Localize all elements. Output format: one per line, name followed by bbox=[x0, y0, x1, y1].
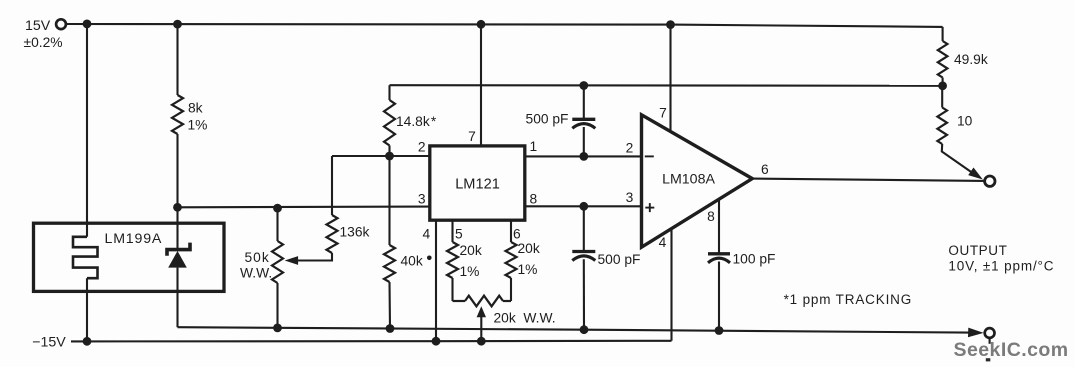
node feedback / 49.9k-10 tap bbox=[938, 81, 947, 90]
svg-text:*1 ppm TRACKING: *1 ppm TRACKING bbox=[784, 292, 913, 307]
terminal output low bbox=[985, 328, 995, 338]
arrow 20k wiper bbox=[477, 306, 486, 317]
node top rail / heater bbox=[83, 20, 92, 29]
svg-text:4: 4 bbox=[659, 235, 667, 250]
wire pin1 to op-amp pin2 bbox=[525, 155, 642, 157]
node -15V rail / heater bbox=[83, 337, 92, 346]
potentiometer 20k W.W. bbox=[453, 300, 466, 302]
node pin1 wire / 500pF-1 bbox=[579, 152, 588, 161]
resistor 136k bbox=[327, 215, 338, 253]
wire common ground rail bbox=[178, 327, 969, 332]
svg-text:3: 3 bbox=[626, 190, 634, 205]
wire 20k wiper bbox=[480, 313, 482, 341]
svg-text:7: 7 bbox=[468, 129, 476, 144]
svg-text:1%: 1% bbox=[518, 262, 538, 277]
wire LM108A pin4 lead bbox=[670, 229, 672, 341]
svg-text:1: 1 bbox=[529, 139, 537, 154]
svg-text:OUTPUT: OUTPUT bbox=[948, 243, 1007, 258]
capacitor 500pF-1 bottom plate bbox=[572, 124, 595, 129]
wire 8k top lead bbox=[176, 24, 178, 95]
node pin2 / 14.8k / 40k bbox=[385, 152, 394, 161]
capacitor 100pF bottom plate bbox=[708, 258, 730, 263]
node feedback / 500pF-1 bbox=[579, 81, 588, 90]
wire 136k to wiper arrow bbox=[295, 253, 332, 261]
wire op-amp output bbox=[752, 179, 984, 181]
node ground rail / 100pF bbox=[715, 326, 724, 335]
wire heater drop bbox=[86, 24, 88, 237]
wire LM121 pin4 lead bbox=[435, 220, 437, 341]
heater element of LM199A bbox=[73, 237, 98, 278]
svg-text:49.9k: 49.9k bbox=[954, 52, 988, 67]
resistor 14.8k* bbox=[384, 100, 395, 146]
resistor 8k bbox=[172, 95, 183, 134]
svg-text:40k: 40k bbox=[401, 254, 423, 269]
svg-text:6: 6 bbox=[513, 226, 521, 241]
svg-text:500 pF: 500 pF bbox=[526, 112, 569, 127]
wire 50k top lead bbox=[276, 208, 278, 241]
resistor 20k 1% left bbox=[447, 242, 458, 278]
svg-text:LM121: LM121 bbox=[455, 177, 500, 193]
wire pin8 to op-amp pin3 bbox=[525, 205, 642, 207]
wire -15V rail bbox=[71, 340, 672, 343]
wire 500pF-1 bottom lead bbox=[583, 127, 585, 156]
wire LM121 pin5 lead bbox=[451, 220, 453, 242]
capacitor 100pF top plate bbox=[708, 252, 730, 255]
resistor 49.9k bbox=[938, 41, 948, 78]
svg-text:50k: 50k bbox=[245, 250, 270, 265]
speck bbox=[986, 358, 991, 361]
node ground rail / 500pF-2 bbox=[580, 325, 589, 334]
terminal output high bbox=[985, 176, 995, 186]
svg-text:−15V: −15V bbox=[32, 334, 66, 350]
resistor 40k* bbox=[384, 245, 395, 282]
arrow on ground rail to output-low bbox=[968, 328, 984, 338]
svg-text:1%: 1% bbox=[460, 264, 480, 279]
node ground rail / 40k bbox=[386, 324, 395, 333]
zener diode of LM199A cathode bar bbox=[167, 243, 190, 256]
wire 500pF-2 top lead bbox=[583, 206, 585, 251]
svg-text:LM108A: LM108A bbox=[662, 172, 715, 188]
arrow output wiper bbox=[968, 168, 983, 180]
wire 40k top lead bbox=[388, 156, 390, 245]
node top rail / LM108A pin7 bbox=[666, 20, 675, 29]
svg-text:20k: 20k bbox=[518, 241, 540, 256]
svg-text:2: 2 bbox=[418, 140, 426, 155]
svg-text:136k: 136k bbox=[340, 225, 370, 240]
resistor 10 bbox=[937, 108, 947, 145]
capacitor 500pF-1 top plate bbox=[572, 118, 595, 121]
node top rail / 8k bbox=[173, 20, 182, 29]
node zener line / pin3 wire bbox=[173, 203, 182, 212]
capacitor 500pF-2 top plate bbox=[572, 250, 595, 253]
svg-text:8k: 8k bbox=[188, 101, 203, 116]
wire pin2 row bbox=[332, 155, 430, 157]
wire 8k to zener bbox=[176, 134, 178, 251]
wire 500pF-1 top lead bbox=[583, 86, 585, 120]
resistor 20k 1% right bbox=[506, 242, 517, 278]
wire 49.9k top lead bbox=[942, 27, 944, 41]
svg-text:W.W.: W.W. bbox=[240, 266, 272, 281]
node ground rail / 50k pot bbox=[273, 324, 282, 333]
stub below output low terminal bbox=[989, 338, 991, 344]
wire LM108A pin8 lead bbox=[718, 199, 720, 254]
minus sign pin2 bbox=[645, 155, 654, 157]
wire LM108A pin7 lead bbox=[669, 25, 671, 132]
svg-text:SeekIC.com: SeekIC.com bbox=[954, 339, 1069, 361]
svg-text:LM199A: LM199A bbox=[105, 231, 163, 247]
wire 20k right bottom lead bbox=[510, 278, 512, 301]
node -15V rail / LM121 pin4 bbox=[432, 337, 441, 346]
wire feedback corner bbox=[388, 85, 390, 100]
wire 49.9k bottom lead bbox=[942, 78, 944, 86]
arrow 50k wiper bbox=[285, 256, 299, 265]
svg-text:14.8k *: 14.8k * bbox=[396, 114, 437, 129]
wire zener node to LM121 pin3 bbox=[178, 206, 430, 209]
node pin3 wire / 50k pot bbox=[273, 204, 282, 213]
wire 500pF-2 bottom lead bbox=[583, 259, 585, 330]
wire zener to lower rail bbox=[176, 268, 178, 328]
wire 50k bottom lead bbox=[276, 283, 278, 328]
potentiometer 50k W.W. bbox=[272, 241, 283, 283]
svg-text:±0.2%: ±0.2% bbox=[24, 35, 63, 50]
wire 100pF bottom lead bbox=[718, 262, 720, 331]
svg-text:10: 10 bbox=[957, 114, 973, 129]
terminal 15V input bbox=[56, 19, 66, 29]
svg-text:8: 8 bbox=[529, 191, 537, 206]
wire LM121 pin7 lead bbox=[480, 24, 482, 146]
node top rail / LM121 pin7 bbox=[477, 20, 486, 29]
capacitor 500pF-2 bottom plate bbox=[572, 256, 595, 261]
svg-text:20k W.W.: 20k W.W. bbox=[494, 311, 556, 326]
svg-text:2: 2 bbox=[626, 140, 634, 155]
node -15V rail / 20k wiper bbox=[477, 337, 486, 346]
svg-text:6: 6 bbox=[761, 162, 769, 177]
svg-text:15V: 15V bbox=[25, 18, 51, 34]
svg-text:3: 3 bbox=[418, 191, 426, 206]
wire pin2 corner down bbox=[331, 156, 333, 215]
svg-text:20k: 20k bbox=[460, 243, 482, 258]
wire feedback rail bbox=[390, 84, 943, 87]
svg-text:5: 5 bbox=[455, 226, 463, 241]
svg-text:4: 4 bbox=[422, 226, 430, 241]
svg-text:500 pF: 500 pF bbox=[598, 252, 641, 267]
wire heater to -15V rail bbox=[86, 278, 88, 341]
node pin8 wire / 500pF-2 bbox=[579, 202, 588, 211]
op-amp LM108A triangle bbox=[642, 115, 753, 247]
svg-text:100 pF: 100 pF bbox=[733, 252, 776, 267]
wire 14.8k bottom lead bbox=[388, 146, 390, 157]
plus sign pin3 bbox=[645, 207, 654, 209]
svg-text:10V, ±1 ppm/°C: 10V, ±1 ppm/°C bbox=[948, 258, 1054, 273]
IC LM121 box bbox=[430, 146, 525, 220]
wire 10 top lead bbox=[941, 86, 943, 108]
wire 10 to wiper arrow bbox=[942, 144, 976, 175]
wire 20k left bottom lead bbox=[451, 278, 453, 301]
svg-text:7: 7 bbox=[659, 106, 667, 121]
svg-text:8: 8 bbox=[707, 209, 715, 224]
wire top rail bbox=[66, 24, 942, 27]
IC LM199A box bbox=[34, 223, 225, 291]
wire 40k bottom lead bbox=[388, 282, 391, 329]
svg-text:1%: 1% bbox=[188, 118, 208, 133]
zener diode anode triangle bbox=[168, 251, 187, 268]
wire LM121 pin6 lead bbox=[510, 220, 512, 242]
